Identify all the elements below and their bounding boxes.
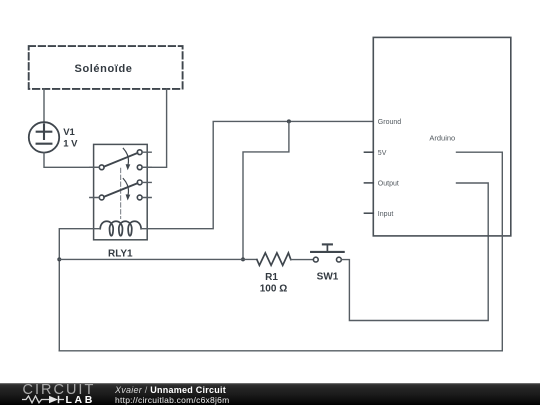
wire V1 bottom to relay common A (44, 153, 99, 168)
svg-text:100 Ω: 100 Ω (260, 284, 287, 295)
relay mechanical link (dashed) (120, 168, 122, 218)
wire solenoid left to V1 top (43, 89, 45, 122)
svg-text:V1: V1 (63, 127, 75, 138)
svg-text:Ground: Ground (378, 119, 401, 126)
wire coil right up to Ground wire (141, 121, 373, 228)
svg-text:5V: 5V (378, 150, 387, 157)
svg-text:Input: Input (378, 211, 394, 218)
pin stub Output (364, 182, 373, 184)
junction left rail / R1 row (57, 257, 61, 261)
wire 5V node right and down to bottom rail (59, 152, 502, 351)
relay switch A blade (104, 153, 138, 167)
wire coil left + left vertical rail (59, 229, 100, 351)
svg-text:R1: R1 (265, 272, 278, 283)
pin stub 5V (364, 151, 373, 153)
junction on R1 row (241, 257, 245, 261)
logo resistor-diode glyph (22, 396, 64, 403)
svg-text:Arduino: Arduino (429, 133, 455, 142)
switch SW1 (313, 257, 318, 262)
relay switch A stubs (90, 152, 151, 167)
wire junction down to R1 node (243, 121, 289, 259)
wire SW1 right to Output wire (341, 183, 488, 321)
relay coil (100, 221, 141, 235)
svg-text:SW1: SW1 (317, 271, 339, 282)
credit line (115, 386, 226, 395)
relay switch A contacts (137, 150, 142, 155)
CircuitLab logo: glyph + LAB (22, 395, 68, 404)
relay switch B blade (104, 183, 138, 197)
wire solenoid right down to relay contact (142, 89, 167, 167)
voltage source V1 (29, 122, 59, 152)
junction on Ground wire (287, 119, 291, 123)
svg-text:Output: Output (378, 181, 399, 188)
relay switch A arrow (123, 148, 128, 165)
wire R1 row (59, 258, 257, 260)
pin stub Input (364, 212, 373, 214)
relay switch B contacts (137, 180, 142, 185)
relay switch B arrow (123, 179, 128, 196)
svg-text:Solénoïde: Solénoïde (75, 63, 133, 75)
resistor R1 (257, 253, 291, 265)
svg-text:RLY1: RLY1 (108, 249, 133, 260)
CircuitLab logo: CIRCUIT (23, 383, 96, 398)
relay RLY1 box (94, 144, 148, 239)
footer bar (0, 383, 540, 405)
wire R1 to SW1 (291, 259, 314, 261)
solenoid dashed box (29, 46, 183, 89)
url line (115, 396, 229, 405)
svg-text:1 V: 1 V (63, 138, 78, 149)
relay switch B stubs (90, 182, 151, 197)
Arduino box (373, 37, 511, 236)
